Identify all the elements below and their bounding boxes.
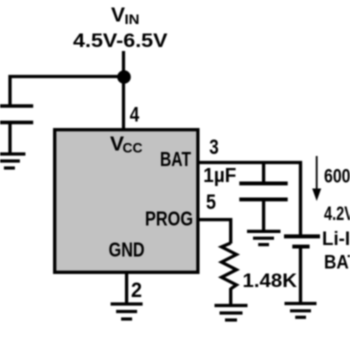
svg-text:1.48K: 1.48K: [243, 271, 298, 292]
svg-text:4.5V-6.5V: 4.5V-6.5V: [73, 30, 168, 52]
svg-text:1µF: 1µF: [203, 165, 236, 187]
svg-text:GND: GND: [109, 240, 145, 262]
svg-text:BAT: BAT: [160, 149, 191, 171]
svg-text:CC: CC: [123, 141, 143, 156]
svg-text:4: 4: [130, 103, 140, 126]
svg-text:5: 5: [206, 191, 216, 214]
svg-text:V: V: [111, 5, 126, 27]
svg-text:600mA: 600mA: [324, 166, 350, 188]
svg-text:PROG: PROG: [145, 209, 193, 231]
svg-text:Li-Ion: Li-Ion: [322, 228, 350, 250]
svg-text:IN: IN: [125, 12, 140, 27]
svg-text:2: 2: [131, 279, 142, 302]
svg-text:3: 3: [209, 136, 219, 159]
svg-text:4.2V: 4.2V: [324, 203, 350, 225]
svg-text:BATTERY: BATTERY: [324, 252, 350, 274]
